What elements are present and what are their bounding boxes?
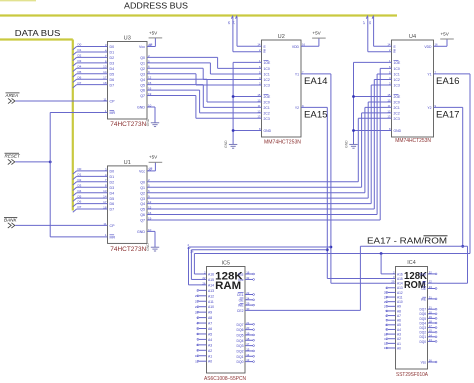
- svg-text:A15: A15: [397, 277, 403, 281]
- svg-text:DQ5: DQ5: [237, 333, 244, 337]
- svg-text:32: 32: [429, 270, 433, 274]
- svg-text:GND: GND: [146, 243, 150, 251]
- svg-text:DQ5: DQ5: [419, 317, 426, 321]
- svg-text:D3: D3: [78, 183, 82, 187]
- svg-text:EA17 - RAM/ROM: EA17 - RAM/ROM: [367, 235, 447, 245]
- svg-text:12: 12: [384, 342, 388, 346]
- svg-text:MR: MR: [110, 111, 116, 115]
- svg-text:D4: D4: [110, 191, 115, 195]
- svg-text:A13: A13: [397, 286, 403, 290]
- svg-text:Q2: Q2: [140, 67, 145, 71]
- svg-text:Q7: Q7: [140, 94, 145, 98]
- svg-text:2C2: 2C2: [264, 111, 270, 115]
- svg-text:AREA: AREA: [5, 93, 19, 98]
- svg-text:DATA BUS: DATA BUS: [15, 29, 61, 38]
- svg-text:U2: U2: [278, 34, 285, 40]
- svg-text:19: 19: [429, 315, 433, 319]
- svg-text:15: 15: [429, 329, 433, 333]
- svg-text:1C2: 1C2: [264, 78, 270, 82]
- svg-text:1C0: 1C0: [264, 67, 270, 71]
- svg-text:CP: CP: [110, 224, 116, 228]
- svg-text:2C1: 2C1: [394, 106, 400, 110]
- svg-text:D1: D1: [78, 172, 82, 176]
- svg-text:74HCT273N: 74HCT273N: [110, 246, 146, 253]
- svg-text:D4: D4: [78, 64, 82, 68]
- svg-text:CE: CE: [422, 282, 426, 286]
- svg-text:Q2: Q2: [140, 191, 145, 195]
- svg-text:DQ6: DQ6: [237, 328, 244, 332]
- svg-text:DQ0: DQ0: [419, 340, 426, 344]
- svg-text:21: 21: [195, 299, 199, 303]
- svg-text:D3: D3: [78, 59, 82, 63]
- svg-text:+5V: +5V: [149, 30, 158, 35]
- svg-text:OE: OE: [239, 298, 245, 302]
- svg-text:CE2: CE2: [237, 309, 244, 313]
- svg-text:U3: U3: [124, 36, 131, 42]
- svg-text:A3: A3: [397, 332, 401, 336]
- svg-text:D5: D5: [78, 70, 82, 74]
- svg-text:Q5: Q5: [140, 83, 145, 87]
- svg-text:1OE: 1OE: [394, 61, 402, 65]
- svg-text:IC5: IC5: [222, 261, 230, 267]
- svg-text:OE: OE: [421, 287, 426, 291]
- svg-text:Q4: Q4: [140, 202, 145, 206]
- svg-text:D4: D4: [110, 67, 115, 71]
- svg-text:D6: D6: [110, 202, 115, 206]
- svg-text:A7: A7: [397, 314, 401, 318]
- svg-text:Vcc: Vcc: [139, 170, 145, 174]
- svg-text:23: 23: [195, 294, 199, 298]
- svg-text:D0: D0: [110, 170, 115, 174]
- svg-text:Vss: Vss: [238, 273, 244, 277]
- svg-text:BANK: BANK: [4, 218, 17, 223]
- svg-text:1OE: 1OE: [264, 61, 272, 65]
- svg-text:DQ3: DQ3: [237, 344, 244, 348]
- svg-text:DQ6: DQ6: [419, 312, 426, 316]
- svg-text:Q0: Q0: [140, 180, 145, 184]
- svg-text:A16: A16: [208, 273, 214, 277]
- svg-text:GND: GND: [146, 118, 150, 126]
- svg-text:DQ4: DQ4: [419, 321, 426, 325]
- svg-text:D7: D7: [78, 81, 82, 85]
- svg-text:10: 10: [195, 354, 199, 358]
- svg-text:D0: D0: [78, 167, 82, 171]
- svg-text:GND: GND: [137, 230, 145, 234]
- svg-text:A14: A14: [397, 282, 403, 286]
- svg-text:EA16: EA16: [436, 75, 460, 86]
- svg-text:DQ1: DQ1: [419, 335, 426, 339]
- svg-text:24: 24: [195, 305, 199, 309]
- svg-text:16: 16: [368, 21, 372, 25]
- svg-text:A10: A10: [397, 300, 403, 304]
- svg-text:13: 13: [384, 346, 388, 350]
- svg-text:A11: A11: [397, 295, 403, 299]
- svg-text:28: 28: [149, 42, 153, 46]
- svg-text:D5: D5: [110, 197, 115, 201]
- svg-text:A0: A0: [208, 360, 212, 364]
- svg-text:13: 13: [429, 338, 433, 342]
- svg-text:EA15: EA15: [304, 109, 328, 120]
- svg-text:14: 14: [231, 21, 235, 25]
- svg-text:2C0: 2C0: [264, 100, 270, 104]
- svg-text:D5: D5: [110, 72, 115, 76]
- svg-text:D2: D2: [78, 54, 82, 58]
- svg-text:CP: CP: [110, 100, 116, 104]
- svg-text:13: 13: [246, 358, 250, 362]
- svg-text:Q1: Q1: [140, 186, 145, 190]
- svg-text:22: 22: [246, 291, 250, 295]
- svg-text:A9: A9: [397, 305, 401, 309]
- svg-text:26: 26: [384, 300, 388, 304]
- svg-text:2OE: 2OE: [264, 95, 272, 99]
- svg-text:MM74HCT253N: MM74HCT253N: [395, 138, 431, 144]
- svg-text:A8: A8: [397, 309, 401, 313]
- svg-text:25: 25: [195, 310, 199, 314]
- svg-text:D6: D6: [78, 75, 82, 79]
- svg-text:IC4: IC4: [407, 260, 415, 266]
- svg-text:26: 26: [190, 250, 194, 254]
- svg-text:DQ2: DQ2: [419, 331, 426, 335]
- svg-text:DQ4: DQ4: [237, 339, 244, 343]
- svg-text:74HCT273N: 74HCT273N: [110, 121, 146, 128]
- svg-text:Vss: Vss: [421, 360, 427, 364]
- svg-text:A10: A10: [208, 305, 214, 309]
- svg-text:A6: A6: [208, 327, 212, 331]
- svg-text:MR: MR: [110, 235, 116, 239]
- svg-text:17: 17: [429, 324, 433, 328]
- svg-text:16: 16: [246, 271, 250, 275]
- svg-text:A7: A7: [208, 322, 212, 326]
- svg-text:A1: A1: [397, 342, 401, 346]
- svg-text:ADDRESS BUS: ADDRESS BUS: [124, 2, 188, 11]
- svg-text:10: 10: [384, 332, 388, 336]
- svg-text:D6: D6: [110, 78, 115, 82]
- svg-text:+5V: +5V: [312, 31, 321, 36]
- svg-text:D0: D0: [110, 45, 115, 49]
- svg-text:20: 20: [246, 326, 250, 330]
- svg-text:A1: A1: [208, 354, 212, 358]
- svg-text:28: 28: [149, 167, 153, 171]
- svg-text:VDD: VDD: [292, 45, 300, 49]
- svg-text:Q4: Q4: [140, 78, 145, 82]
- svg-text:A12: A12: [208, 294, 214, 298]
- svg-text:2C1: 2C1: [264, 106, 270, 110]
- svg-text:Q7: Q7: [140, 219, 145, 223]
- svg-text:DQ3: DQ3: [419, 326, 426, 330]
- svg-text:D3: D3: [110, 186, 115, 190]
- svg-text:EA14: EA14: [304, 75, 328, 86]
- svg-text:29: 29: [246, 302, 250, 306]
- svg-text:D5: D5: [78, 194, 82, 198]
- svg-text:CE1: CE1: [237, 293, 244, 297]
- svg-text:A4: A4: [208, 338, 212, 342]
- svg-text:A5: A5: [208, 332, 212, 336]
- svg-text:1C2: 1C2: [394, 78, 400, 82]
- svg-text:Q5: Q5: [140, 208, 145, 212]
- svg-text:1C1: 1C1: [264, 73, 270, 77]
- svg-text:GND: GND: [137, 106, 145, 110]
- svg-text:31: 31: [429, 295, 433, 299]
- svg-text:Y1: Y1: [427, 72, 431, 76]
- svg-text:21: 21: [246, 321, 250, 325]
- svg-text:VDD: VDD: [419, 272, 426, 276]
- svg-text:18: 18: [246, 337, 250, 341]
- svg-text:2C2: 2C2: [394, 111, 400, 115]
- svg-text:Q1: Q1: [140, 61, 145, 65]
- svg-text:A14: A14: [208, 283, 214, 287]
- svg-text:A12: A12: [397, 291, 403, 295]
- svg-text:23: 23: [384, 295, 388, 299]
- svg-text:D2: D2: [110, 180, 115, 184]
- svg-text:1C3: 1C3: [264, 84, 270, 88]
- svg-text:DQ1: DQ1: [237, 355, 244, 359]
- svg-text:D1: D1: [110, 175, 115, 179]
- svg-text:D7: D7: [110, 208, 115, 212]
- svg-text:A16: A16: [397, 272, 403, 276]
- svg-text:D6: D6: [78, 200, 82, 204]
- svg-text:SST29SF010A: SST29SF010A: [396, 372, 428, 378]
- svg-text:17: 17: [246, 342, 250, 346]
- svg-text:D4: D4: [78, 189, 82, 193]
- svg-text:25: 25: [384, 291, 388, 295]
- svg-text:GND: GND: [394, 129, 402, 133]
- svg-text:27: 27: [384, 305, 388, 309]
- svg-text:20: 20: [429, 310, 433, 314]
- svg-text:D1: D1: [78, 48, 82, 52]
- svg-text:EA17: EA17: [436, 109, 460, 120]
- svg-text:A5: A5: [397, 323, 401, 327]
- svg-text:2C3: 2C3: [394, 117, 400, 121]
- svg-text:A4: A4: [397, 328, 401, 332]
- svg-text:GND: GND: [224, 140, 228, 148]
- svg-text:Q6: Q6: [140, 213, 145, 217]
- svg-text:2OE: 2OE: [394, 95, 402, 99]
- svg-text:D3: D3: [110, 61, 115, 65]
- svg-text:A2: A2: [397, 337, 401, 341]
- svg-text:A3: A3: [208, 343, 212, 347]
- svg-text:18: 18: [429, 320, 433, 324]
- svg-text:DQ7: DQ7: [419, 308, 426, 312]
- svg-text:Q6: Q6: [140, 89, 145, 93]
- svg-text:16: 16: [429, 359, 433, 363]
- svg-text:VDD: VDD: [424, 45, 432, 49]
- svg-text:RESET: RESET: [5, 153, 22, 158]
- svg-text:24: 24: [246, 296, 250, 300]
- svg-text:A13: A13: [208, 289, 214, 293]
- svg-text:1C0: 1C0: [394, 67, 400, 71]
- svg-text:GND: GND: [344, 140, 348, 148]
- svg-text:Q0: Q0: [140, 56, 145, 60]
- svg-text:Q3: Q3: [140, 197, 145, 201]
- svg-text:2C3: 2C3: [264, 117, 270, 121]
- svg-text:24: 24: [429, 285, 433, 289]
- svg-text:A8: A8: [208, 316, 212, 320]
- svg-text:A15: A15: [208, 278, 214, 282]
- svg-text:MM74HCT253N: MM74HCT253N: [264, 140, 301, 146]
- svg-text:2C0: 2C0: [394, 100, 400, 104]
- svg-text:21: 21: [429, 306, 433, 310]
- svg-text:D1: D1: [110, 51, 115, 55]
- svg-text:1C3: 1C3: [394, 84, 400, 88]
- svg-text:GND: GND: [264, 129, 272, 133]
- svg-text:DQ0: DQ0: [237, 360, 244, 364]
- svg-text:17: 17: [362, 21, 366, 25]
- svg-text:A6: A6: [397, 319, 401, 323]
- svg-text:Y2: Y2: [295, 106, 299, 110]
- svg-text:A11: A11: [208, 300, 214, 304]
- svg-text:Y2: Y2: [427, 106, 431, 110]
- svg-text:AS6C1008–55PCN: AS6C1008–55PCN: [204, 376, 246, 382]
- svg-text:D0: D0: [78, 43, 82, 47]
- svg-text:U1: U1: [124, 160, 131, 166]
- svg-text:+5V: +5V: [441, 31, 450, 36]
- svg-text:D7: D7: [78, 205, 82, 209]
- svg-text:A9: A9: [208, 311, 212, 315]
- svg-text:Q3: Q3: [140, 72, 145, 76]
- svg-text:D7: D7: [110, 83, 115, 87]
- svg-text:Vcc: Vcc: [238, 278, 244, 282]
- svg-text:14: 14: [246, 353, 250, 357]
- svg-text:WE: WE: [238, 304, 244, 308]
- svg-text:D2: D2: [110, 56, 115, 60]
- svg-text:D2: D2: [78, 178, 82, 182]
- svg-text:+5V: +5V: [149, 155, 158, 160]
- svg-text:DQ2: DQ2: [237, 349, 244, 353]
- svg-text:A2: A2: [208, 349, 212, 353]
- svg-text:14: 14: [429, 333, 433, 337]
- svg-text:Vcc: Vcc: [139, 45, 145, 49]
- svg-text:32: 32: [246, 276, 250, 280]
- svg-text:1C1: 1C1: [394, 73, 400, 77]
- svg-text:Y1: Y1: [295, 72, 299, 76]
- svg-text:WE: WE: [421, 297, 426, 301]
- svg-text:A0: A0: [397, 346, 401, 350]
- svg-text:19: 19: [246, 331, 250, 335]
- svg-text:U4: U4: [409, 34, 416, 40]
- svg-text:DQ7: DQ7: [237, 323, 244, 327]
- svg-text:15: 15: [246, 347, 250, 351]
